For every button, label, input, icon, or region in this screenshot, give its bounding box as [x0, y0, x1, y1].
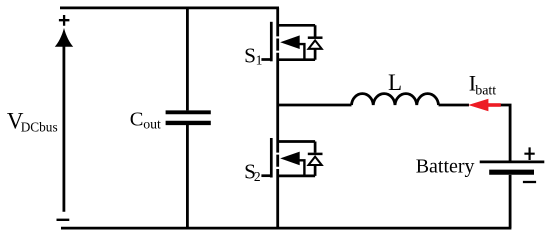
- svg-text:1: 1: [256, 52, 263, 67]
- svg-text:C: C: [130, 109, 144, 131]
- svg-text:2: 2: [254, 169, 261, 184]
- svg-text:L: L: [388, 70, 402, 95]
- svg-text:S: S: [244, 43, 256, 67]
- svg-text:Battery: Battery: [416, 156, 475, 178]
- svg-text:batt: batt: [475, 84, 496, 99]
- svg-text:DCbus: DCbus: [21, 119, 58, 134]
- svg-text:out: out: [143, 117, 161, 132]
